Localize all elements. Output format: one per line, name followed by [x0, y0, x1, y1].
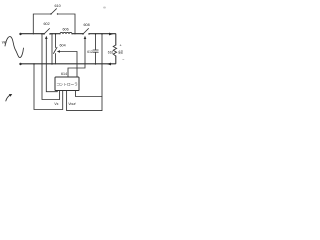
sense wire Vs from top rail to controller — [42, 34, 60, 100]
node: input bottom terminal — [19, 63, 21, 65]
svg-text:−: − — [122, 57, 124, 61]
wire top rail after inductor — [72, 33, 83, 35]
arrow current direction bottom — [107, 63, 111, 66]
top bypass loop wire left riser — [33, 14, 51, 34]
wire top rail middle segment — [50, 33, 60, 35]
control line to switch 602 with arrow — [46, 39, 57, 92]
top bypass loop wire right riser — [58, 14, 76, 34]
switch 608 — [83, 29, 89, 35]
svg-text:608: 608 — [84, 23, 90, 27]
wire top rail left segment — [21, 33, 45, 35]
wire top rail right segment — [89, 34, 116, 45]
resistor 616 load — [113, 45, 116, 56]
svg-text:コントローラ: コントローラ — [56, 82, 78, 87]
svg-text:Vout: Vout — [68, 102, 76, 106]
leader arrow bottom left — [6, 95, 11, 101]
svg-text:602: 602 — [44, 22, 50, 26]
svg-text:614: 614 — [61, 72, 67, 76]
wire bottom rail — [21, 56, 116, 64]
smudge artifact top right — [103, 7, 106, 9]
capacitor 612 — [95, 34, 97, 50]
svg-text:負荷: 負荷 — [118, 49, 123, 54]
switch 602 — [44, 29, 50, 35]
switch 604 branch vertical — [55, 34, 57, 48]
wire controller right pin — [76, 91, 103, 97]
sense wire Vout from top rail output node — [67, 34, 102, 111]
svg-text:604: 604 — [60, 44, 66, 48]
svg-text:606: 606 — [63, 28, 69, 32]
wire mid vertical link — [51, 34, 53, 64]
control line to switch 604 with arrow — [60, 52, 78, 78]
AC source Vin sine symbol — [5, 37, 24, 58]
node: input top terminal — [19, 33, 21, 35]
svg-text:612: 612 — [87, 50, 93, 54]
switch 610 — [51, 9, 57, 14]
svg-text:+: + — [120, 44, 122, 48]
arrow current direction top — [109, 33, 113, 36]
svg-text:Vin: Vin — [2, 41, 7, 45]
svg-text:616: 616 — [108, 50, 114, 54]
wire controller common to bottom rail — [34, 64, 63, 110]
controller 614 box — [55, 77, 79, 91]
svg-text:Vs: Vs — [54, 102, 58, 106]
inductor 606 — [60, 32, 72, 34]
node rail junction 604 — [55, 33, 56, 34]
control line to switch 608 with arrow — [68, 39, 85, 78]
svg-text:610: 610 — [55, 4, 61, 8]
